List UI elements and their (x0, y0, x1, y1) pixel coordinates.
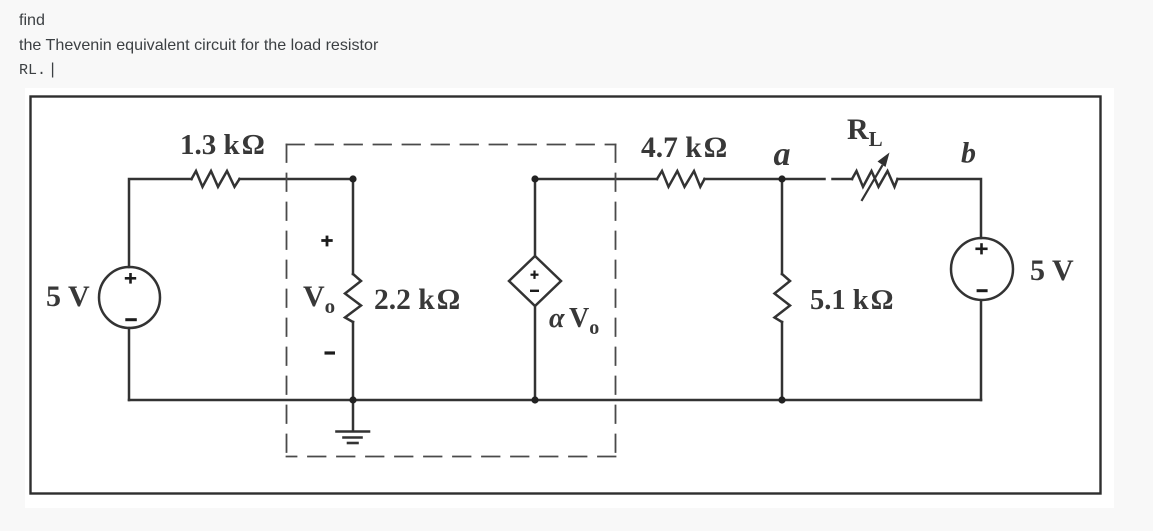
minus in right source (977, 289, 988, 292)
resistor R2 2.2k zigzag (345, 274, 361, 322)
minus in diamond (530, 290, 539, 292)
wire: below left source (128, 328, 131, 400)
voltage source V1 left 5V circle (99, 267, 160, 328)
node dot: top 2.2k (349, 175, 356, 182)
border frame (31, 97, 1101, 494)
svg-text:2.2 kΩ: 2.2 kΩ (374, 284, 460, 316)
svg-text:5 V: 5 V (1030, 254, 1074, 287)
minus in left source (125, 318, 137, 321)
wire: RL to corner b and down (898, 179, 982, 238)
node dot: bottom 5.1k (778, 396, 785, 403)
node dot: a (778, 175, 785, 182)
node dot: bottom ground (349, 396, 356, 403)
wire: short stub to RL (833, 178, 853, 181)
svg-text:5.1 kΩ: 5.1 kΩ (810, 285, 893, 316)
plus in left source (125, 273, 136, 284)
prompt text (19, 8, 378, 84)
RL arrowhead (878, 153, 890, 168)
dependent source U1 diamond (509, 256, 561, 306)
node dot: bottom dep source (531, 396, 538, 403)
dashed feedback box (287, 145, 616, 457)
wire: 4.7k to node a (705, 178, 825, 181)
svg-text:b: b (961, 137, 976, 170)
wire: below right source (980, 301, 983, 401)
wire: node a to 5.1k (781, 179, 784, 274)
node dot: top dep source (531, 175, 538, 182)
resistor RL zigzag (852, 171, 898, 187)
voltage source V2 right 5V circle (951, 238, 1013, 300)
wire: 1.3k to 2.2k node (240, 178, 354, 181)
svg-text:a: a (774, 136, 791, 173)
plus in diamond (531, 271, 539, 279)
polarity plus above 2.2k (321, 236, 332, 247)
resistor R3 4.7k zigzag (657, 171, 705, 187)
wire: node to 2.2k (352, 179, 355, 274)
plus in right source (975, 243, 987, 254)
wire: left source up to 1.3k (129, 179, 192, 267)
wire: dep source node to 4.7k (535, 178, 657, 181)
svg-text:5 V: 5 V (46, 280, 90, 313)
svg-text:1.3 kΩ: 1.3 kΩ (180, 129, 264, 161)
wire: dep source to bottom (534, 306, 537, 400)
polarity minus below Vo (325, 351, 336, 354)
RL wiper arrow shaft (862, 166, 882, 200)
resistor R4 5.1k zigzag (775, 274, 791, 322)
wire: node to dep source (534, 179, 537, 256)
svg-text:4.7 kΩ: 4.7 kΩ (641, 132, 727, 164)
resistor R1 1.3k zigzag (192, 171, 240, 187)
white panel (25, 88, 1114, 508)
wire: 2.2k to ground node (352, 322, 355, 431)
bottom wire (129, 399, 981, 402)
wire: 5.1k to bottom (781, 322, 784, 400)
ground bars (337, 432, 370, 444)
